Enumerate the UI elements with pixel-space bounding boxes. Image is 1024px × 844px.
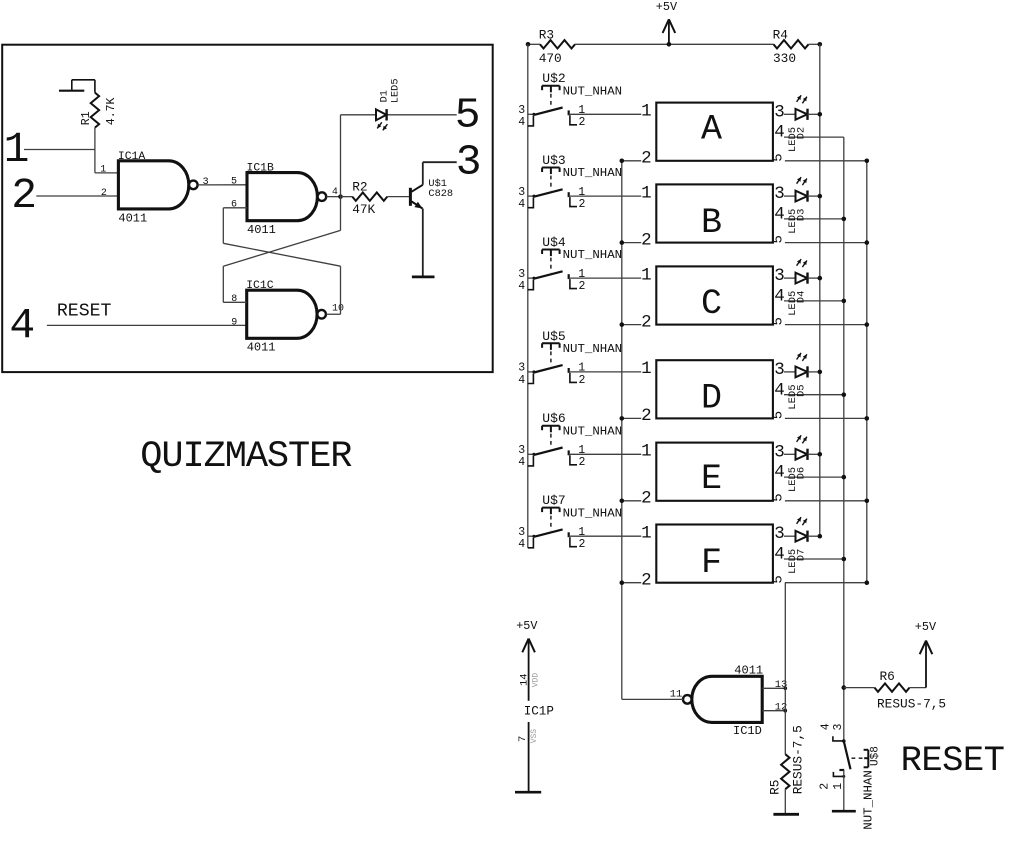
svg-text:U$8: U$8 xyxy=(870,746,882,766)
svg-text:5: 5 xyxy=(771,317,787,325)
svg-text:4: 4 xyxy=(518,280,525,293)
svg-text:E: E xyxy=(701,459,722,499)
svg-text:47K: 47K xyxy=(352,202,375,217)
svg-text:1: 1 xyxy=(641,102,652,122)
svg-text:2: 2 xyxy=(641,149,652,169)
svg-text:4.7K: 4.7K xyxy=(105,97,118,125)
svg-text:RESUS-7,5: RESUS-7,5 xyxy=(791,725,806,794)
svg-text:2: 2 xyxy=(641,489,652,509)
svg-text:3: 3 xyxy=(456,137,482,186)
svg-text:NUT_NHAN: NUT_NHAN xyxy=(861,770,875,830)
svg-text:1: 1 xyxy=(641,183,652,203)
svg-text:IC1C: IC1C xyxy=(246,280,274,292)
svg-text:8: 8 xyxy=(231,294,237,305)
svg-text:2: 2 xyxy=(579,280,586,293)
svg-text:1: 1 xyxy=(578,362,585,375)
svg-text:NUT_NHAN: NUT_NHAN xyxy=(563,248,623,262)
svg-text:3: 3 xyxy=(774,102,785,122)
svg-text:D: D xyxy=(701,379,722,419)
svg-text:R6: R6 xyxy=(880,669,895,684)
svg-text:3: 3 xyxy=(774,442,785,462)
svg-text:IC1A: IC1A xyxy=(118,151,146,163)
svg-text:1: 1 xyxy=(578,104,585,117)
svg-text:RESET: RESET xyxy=(57,302,112,322)
svg-text:2: 2 xyxy=(11,171,37,220)
svg-text:RESET: RESET xyxy=(901,740,1005,781)
svg-text:4: 4 xyxy=(774,287,785,307)
svg-text:F: F xyxy=(701,543,722,583)
svg-text:2: 2 xyxy=(641,230,652,250)
svg-text:3: 3 xyxy=(774,184,785,204)
svg-text:5: 5 xyxy=(771,235,787,243)
svg-text:5: 5 xyxy=(771,153,787,161)
svg-text:IC1P: IC1P xyxy=(524,705,554,719)
svg-text:4: 4 xyxy=(774,123,785,143)
svg-text:B: B xyxy=(701,203,722,243)
svg-text:11: 11 xyxy=(670,688,683,700)
svg-text:5: 5 xyxy=(455,91,481,140)
svg-text:3: 3 xyxy=(832,724,845,731)
svg-text:3: 3 xyxy=(518,186,525,199)
svg-text:VSS: VSS xyxy=(530,729,539,744)
svg-text:4: 4 xyxy=(518,198,525,211)
svg-text:R4: R4 xyxy=(773,28,789,43)
svg-text:2: 2 xyxy=(819,783,832,790)
svg-text:R3: R3 xyxy=(539,28,554,43)
svg-text:5: 5 xyxy=(771,411,787,419)
svg-text:6: 6 xyxy=(231,200,237,211)
svg-text:4: 4 xyxy=(518,116,525,129)
svg-text:A: A xyxy=(701,110,722,150)
svg-text:1: 1 xyxy=(578,444,585,457)
svg-text:4: 4 xyxy=(774,463,785,483)
svg-text:1: 1 xyxy=(641,265,652,285)
svg-text:3: 3 xyxy=(774,266,785,286)
svg-text:10: 10 xyxy=(332,303,344,314)
svg-text:D6: D6 xyxy=(795,467,807,480)
svg-text:2: 2 xyxy=(579,374,586,387)
svg-text:4: 4 xyxy=(774,205,785,225)
svg-text:4: 4 xyxy=(774,545,785,565)
svg-text:330: 330 xyxy=(773,51,796,66)
svg-text:2: 2 xyxy=(641,312,652,332)
svg-text:3: 3 xyxy=(774,524,785,544)
svg-text:2: 2 xyxy=(579,538,586,551)
svg-text:3: 3 xyxy=(518,526,525,539)
svg-text:2: 2 xyxy=(579,116,586,129)
svg-text:4: 4 xyxy=(820,723,833,730)
svg-text:2: 2 xyxy=(641,406,652,426)
svg-text:5: 5 xyxy=(231,177,237,188)
svg-text:VDD: VDD xyxy=(532,673,541,688)
svg-text:2: 2 xyxy=(101,188,107,199)
svg-text:1: 1 xyxy=(578,526,585,539)
svg-text:5: 5 xyxy=(771,575,787,583)
svg-text:4: 4 xyxy=(518,538,525,551)
svg-text:5: 5 xyxy=(771,493,787,501)
svg-text:QUIZMASTER: QUIZMASTER xyxy=(140,436,352,478)
svg-text:470: 470 xyxy=(539,51,562,66)
svg-text:4011: 4011 xyxy=(247,341,276,355)
svg-text:1: 1 xyxy=(832,783,845,790)
svg-text:IC1D: IC1D xyxy=(733,724,762,738)
svg-text:IC1B: IC1B xyxy=(247,163,275,175)
svg-text:NUT_NHAN: NUT_NHAN xyxy=(563,424,623,438)
svg-text:R1: R1 xyxy=(80,111,93,125)
svg-text:C: C xyxy=(701,284,722,324)
svg-text:3: 3 xyxy=(774,360,785,380)
svg-text:14: 14 xyxy=(518,673,530,686)
svg-text:LED5: LED5 xyxy=(390,78,402,103)
svg-text:2: 2 xyxy=(579,198,586,211)
svg-text:4011: 4011 xyxy=(247,223,276,237)
svg-text:NUT_NHAN: NUT_NHAN xyxy=(563,84,623,98)
svg-text:4: 4 xyxy=(9,301,35,350)
svg-text:3: 3 xyxy=(518,362,525,375)
svg-text:4011: 4011 xyxy=(118,211,147,225)
svg-text:4011: 4011 xyxy=(734,663,763,677)
svg-text:3: 3 xyxy=(518,444,525,457)
svg-text:1: 1 xyxy=(641,359,652,379)
svg-text:C828: C828 xyxy=(428,188,453,200)
svg-text:NUT_NHAN: NUT_NHAN xyxy=(563,342,623,356)
svg-text:3: 3 xyxy=(518,104,525,117)
svg-text:NUT_NHAN: NUT_NHAN xyxy=(563,506,623,520)
svg-text:D3: D3 xyxy=(795,209,807,222)
svg-text:D2: D2 xyxy=(795,127,807,140)
svg-text:4: 4 xyxy=(518,374,525,387)
svg-text:+5V: +5V xyxy=(656,0,678,14)
svg-text:2: 2 xyxy=(641,570,652,590)
svg-text:1: 1 xyxy=(578,186,585,199)
svg-text:+5V: +5V xyxy=(516,619,538,633)
svg-text:1: 1 xyxy=(641,523,652,543)
svg-text:3: 3 xyxy=(518,268,525,281)
svg-text:2: 2 xyxy=(579,456,586,469)
svg-text:R5: R5 xyxy=(768,780,783,795)
svg-text:D4: D4 xyxy=(795,291,807,304)
svg-text:3: 3 xyxy=(203,177,209,188)
svg-text:7: 7 xyxy=(517,736,529,742)
svg-text:RESUS-7,5: RESUS-7,5 xyxy=(877,697,946,712)
svg-text:D7: D7 xyxy=(795,549,807,562)
svg-text:4: 4 xyxy=(774,380,785,400)
svg-text:9: 9 xyxy=(231,317,237,328)
svg-text:D5: D5 xyxy=(795,384,807,397)
svg-text:R2: R2 xyxy=(352,180,367,195)
svg-text:1: 1 xyxy=(100,165,106,176)
svg-text:+5V: +5V xyxy=(915,620,937,634)
svg-text:4: 4 xyxy=(518,456,525,469)
svg-text:1: 1 xyxy=(641,442,652,462)
svg-text:NUT_NHAN: NUT_NHAN xyxy=(563,166,623,180)
svg-text:1: 1 xyxy=(578,268,585,281)
